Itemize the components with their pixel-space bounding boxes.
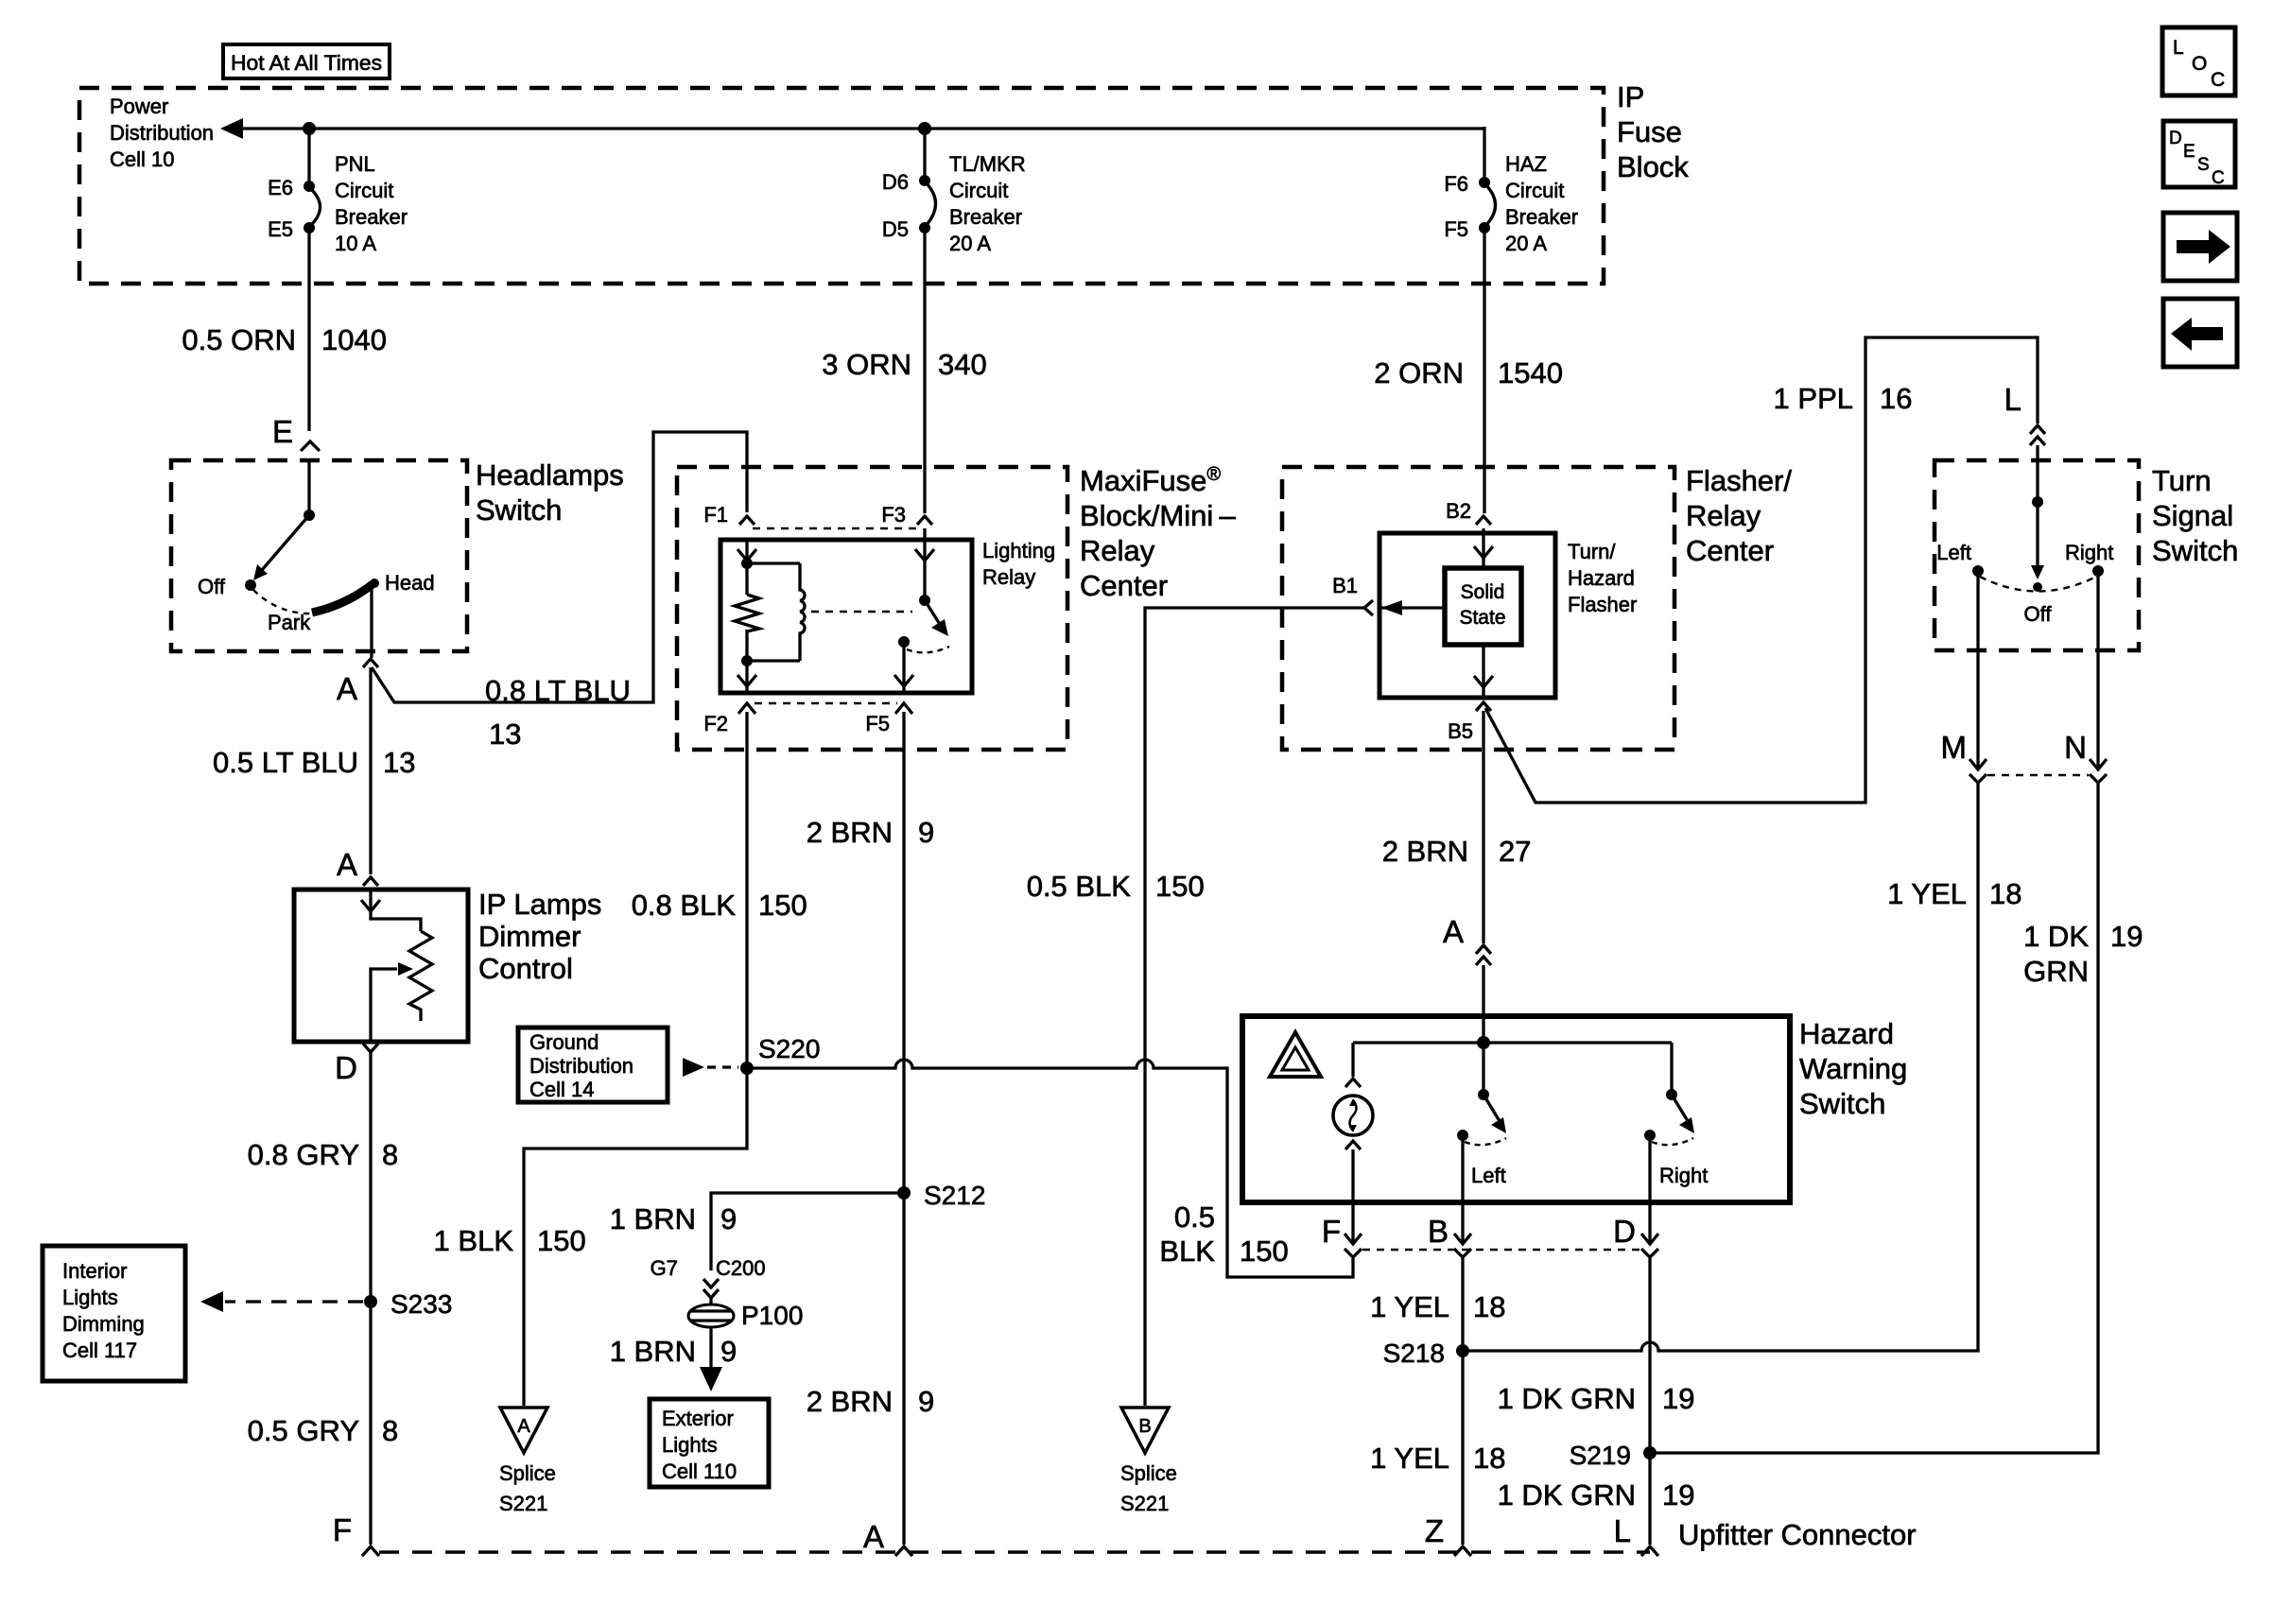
node S212 (897, 1181, 985, 1210)
svg-text:A: A (863, 1519, 884, 1554)
connector N (2064, 730, 2107, 783)
svg-text:Cell 10: Cell 10 (110, 147, 174, 171)
svg-text:8: 8 (382, 1414, 398, 1447)
svg-text:Right: Right (1659, 1164, 1708, 1187)
svg-text:Exterior: Exterior (662, 1407, 734, 1430)
svg-text:Switch: Switch (2152, 534, 2238, 567)
connector Z (1425, 1513, 1471, 1556)
wire 0.5 LT BLU down to dimmer (369, 667, 372, 874)
wire Right to N (2096, 571, 2099, 768)
pin face dashed line F1-F3 (753, 527, 919, 529)
node Right (2065, 541, 2113, 577)
hazard feed node (1477, 1036, 1490, 1049)
splice S221 A triangle (499, 1408, 556, 1515)
wire 1 DK GRN from N to S219 (1654, 783, 2098, 1453)
svg-text:18: 18 (1473, 1442, 1505, 1475)
svg-text:1 BRN: 1 BRN (610, 1335, 696, 1368)
LOC icon box (2162, 27, 2235, 95)
dashed travel arc Left-Off-Right (1980, 577, 2096, 592)
svg-text:Relay: Relay (1080, 534, 1155, 567)
wire label 1 BRN 9 (610, 1202, 737, 1235)
svg-text:150: 150 (1155, 870, 1205, 903)
wire label 2 ORN 1540 (1374, 356, 1563, 389)
Turn Signal Switch dashed box (1935, 460, 2139, 650)
wire from Head down to A (370, 586, 373, 658)
svg-text:150: 150 (537, 1224, 586, 1257)
wire from S212 to C200 (711, 1193, 904, 1270)
svg-text:Splice: Splice (1120, 1461, 1177, 1485)
wire from S220 down to splice S221 A (524, 1068, 747, 1406)
circuit breaker TL/MKR 20A (D6-D5) (882, 129, 1026, 513)
wire 1 BRN 9 to exterior lights (610, 1327, 737, 1391)
wire label 1 YEL 18 upper right (1887, 877, 2021, 910)
svg-text:E5: E5 (268, 217, 293, 241)
svg-text:Circuit: Circuit (949, 179, 1008, 202)
svg-text:Control: Control (478, 952, 573, 985)
svg-text:Cell 117: Cell 117 (62, 1339, 137, 1362)
wire label 0.5 BLK 150 at hazard F (1159, 1201, 1288, 1268)
wire label 1 PPL 16 (1774, 382, 1913, 415)
svg-text:Signal: Signal (2152, 499, 2233, 532)
node S220 (740, 1034, 820, 1075)
pin F5 (865, 703, 912, 735)
svg-text:A: A (1443, 914, 1464, 949)
svg-text:2 ORN: 2 ORN (1374, 356, 1464, 389)
wire 1 PPL from B5 to L (1485, 337, 2038, 803)
Exterior Lights Cell 110 box (650, 1399, 769, 1487)
pin B1 (1332, 574, 1373, 615)
node: junction at TL/MKR breaker (918, 122, 931, 135)
splice S221 B triangle (1120, 1408, 1177, 1515)
svg-text:340: 340 (938, 348, 987, 381)
connector G7 C200 (651, 1256, 766, 1298)
wire A into hazard switch (1482, 965, 1484, 1043)
svg-text:B5: B5 (1448, 719, 1473, 743)
connector A at hazard switch (1443, 914, 1491, 965)
wire label 0.5 LT BLU 13 (213, 746, 415, 779)
svg-text:State: State (1459, 607, 1505, 629)
dimmer rheostat (361, 890, 432, 1042)
svg-text:150: 150 (758, 889, 807, 922)
svg-text:F5: F5 (865, 712, 890, 735)
wire 0.8 LT BLU from A up to F1 (372, 432, 747, 702)
svg-text:F1: F1 (703, 503, 728, 527)
svg-text:0.8 BLK: 0.8 BLK (632, 889, 737, 922)
Hazard Warning Switch box (1242, 1016, 1790, 1202)
wire 2 BRN from F5 down to A (902, 712, 905, 1545)
svg-text:Interior: Interior (62, 1259, 127, 1283)
svg-text:P100: P100 (741, 1301, 803, 1330)
svg-text:27: 27 (1499, 835, 1531, 868)
svg-text:S218: S218 (1383, 1339, 1445, 1368)
node Off (198, 575, 256, 598)
wire solid state to B1 (1379, 600, 1445, 615)
Turn/Hazard Flasher label (1568, 540, 1637, 616)
svg-text:S221: S221 (499, 1492, 547, 1515)
wire solid state to B5 (1474, 645, 1493, 698)
svg-text:0.5 BLK: 0.5 BLK (1027, 870, 1132, 903)
svg-text:A: A (337, 847, 357, 882)
svg-text:Lights: Lights (662, 1433, 718, 1457)
svg-text:L: L (1614, 1513, 1631, 1548)
svg-text:E6: E6 (268, 176, 293, 199)
svg-text:BLK: BLK (1159, 1235, 1215, 1268)
svg-text:D: D (1613, 1214, 1636, 1249)
svg-text:19: 19 (1662, 1478, 1694, 1512)
connector D (335, 1044, 378, 1085)
svg-text:19: 19 (1662, 1382, 1694, 1415)
wire label 2 BRN 9 lower (807, 1385, 935, 1418)
svg-text:Fuse: Fuse (1617, 115, 1682, 148)
svg-text:Hazard: Hazard (1568, 566, 1635, 590)
svg-text:D: D (2169, 129, 2182, 148)
svg-text:Ground: Ground (529, 1030, 599, 1054)
svg-text:18: 18 (1989, 877, 2021, 910)
pin B of hazard switch (1428, 1214, 1471, 1257)
pin F2 (703, 703, 755, 735)
ground wire S220 to hazard switch F (747, 1060, 1353, 1277)
Lighting Relay label (982, 539, 1055, 589)
svg-text:0.5 GRY: 0.5 GRY (248, 1414, 359, 1447)
svg-text:Headlamps: Headlamps (476, 458, 624, 492)
svg-text:Lighting: Lighting (982, 539, 1055, 562)
connector A at bottom line (863, 1519, 912, 1556)
svg-text:E: E (272, 414, 293, 449)
wire: top feed bus to Power Distribution (220, 118, 1484, 139)
connector E (272, 414, 320, 451)
svg-text:S212: S212 (924, 1181, 985, 1210)
svg-text:1 YEL: 1 YEL (1370, 1290, 1449, 1323)
svg-text:Dimmer: Dimmer (478, 920, 581, 953)
svg-text:1 DK: 1 DK (2023, 920, 2089, 953)
svg-text:B: B (1428, 1214, 1449, 1249)
pin B5 (1448, 702, 1491, 743)
thick blade arc Park to Head (312, 584, 373, 613)
svg-text:Park: Park (268, 611, 311, 634)
Flasher/Relay Center label (1686, 464, 1792, 567)
svg-text:D: D (335, 1050, 357, 1085)
wire 0.8 BLK from F2 to S220 (745, 712, 748, 1068)
svg-text:D5: D5 (882, 217, 909, 241)
svg-text:Z: Z (1425, 1513, 1444, 1548)
relay coil branch (735, 540, 805, 693)
svg-text:Cell 110: Cell 110 (662, 1460, 737, 1483)
wire label 0.5 BLK 150 (1027, 870, 1205, 903)
wire 1 YEL from B to Z (1461, 1257, 1464, 1545)
svg-text:Off: Off (2024, 602, 2053, 626)
Hot At All Times label box (223, 44, 390, 78)
wire label 1 DK GRN right (2023, 920, 2143, 988)
IP Fuse Block label (1617, 80, 1689, 183)
svg-text:Switch: Switch (476, 493, 562, 527)
svg-text:13: 13 (383, 746, 415, 779)
svg-text:Turn: Turn (2152, 464, 2212, 497)
svg-text:F6: F6 (1444, 172, 1468, 196)
svg-text:L: L (2173, 37, 2184, 59)
svg-text:S221: S221 (1120, 1492, 1169, 1515)
Lighting Relay box (720, 540, 972, 693)
pin F1 (703, 503, 755, 527)
Hazard Warning Switch label (1799, 1017, 1907, 1120)
hazard warning triangle icon (1270, 1032, 1321, 1077)
svg-text:E: E (2183, 142, 2195, 162)
svg-text:Center: Center (1080, 569, 1168, 602)
svg-text:C200: C200 (716, 1256, 766, 1280)
node S233 (364, 1289, 452, 1319)
headlamp switch blade with arrow to Off (253, 510, 315, 580)
svg-text:F2: F2 (703, 712, 728, 735)
svg-text:S219: S219 (1570, 1441, 1631, 1470)
svg-text:18: 18 (1473, 1290, 1505, 1323)
svg-text:1 PPL: 1 PPL (1774, 382, 1853, 415)
pin D of hazard switch (1613, 1214, 1658, 1257)
svg-text:Upfitter Connector: Upfitter Connector (1678, 1518, 1917, 1551)
node S219 (1570, 1441, 1657, 1470)
svg-text:A: A (517, 1416, 530, 1437)
wire B2 into flasher (1474, 528, 1493, 568)
svg-text:Hazard: Hazard (1799, 1017, 1894, 1050)
wire 1 DK GRN from D to L (1648, 1257, 1651, 1545)
svg-text:Splice: Splice (499, 1461, 556, 1485)
pin F3 (881, 503, 932, 527)
connector L at upfitter (1614, 1513, 1658, 1556)
wire into headlamp switch (307, 462, 310, 515)
svg-text:Center: Center (1686, 534, 1774, 567)
hazard right contact switch (1644, 1043, 1708, 1242)
svg-text:8: 8 (382, 1138, 398, 1171)
wire label 2 BRN 27 (1382, 835, 1532, 868)
svg-text:D6: D6 (882, 170, 909, 194)
circuit breaker HAZ 20A (F6-F5) (1444, 127, 1578, 513)
connector L at turn signal switch (2004, 382, 2045, 445)
node Head (370, 571, 435, 595)
svg-text:M: M (1941, 730, 1968, 765)
svg-text:150: 150 (1240, 1235, 1289, 1268)
node S218 (1383, 1339, 1469, 1368)
svg-text:1 YEL: 1 YEL (1370, 1442, 1449, 1475)
svg-text:S220: S220 (758, 1034, 820, 1063)
pin F of hazard switch (1322, 1214, 1362, 1257)
IP Fuse Block dashed box (79, 88, 1604, 284)
svg-text:Relay: Relay (1686, 499, 1761, 532)
wire label 3 ORN 340 (822, 348, 986, 381)
svg-text:Warning: Warning (1799, 1052, 1907, 1085)
svg-text:L: L (2004, 382, 2021, 417)
svg-text:0.8 LT BLU: 0.8 LT BLU (485, 674, 631, 707)
svg-text:2 BRN: 2 BRN (807, 816, 893, 849)
svg-text:Right: Right (2065, 541, 2113, 564)
svg-text:9: 9 (918, 1385, 934, 1418)
connector A at dimmer control (337, 847, 378, 886)
svg-text:MaxiFuse®: MaxiFuse® (1080, 464, 1221, 497)
svg-text:Switch: Switch (1799, 1087, 1885, 1120)
svg-text:9: 9 (720, 1335, 737, 1368)
pin face dashed line F2-F5 (755, 702, 897, 704)
relay switch branch (894, 528, 949, 693)
svg-text:GRN: GRN (2023, 955, 2089, 988)
Ground Distribution Cell 14 box (518, 1028, 668, 1102)
dashed travel arc Off to Park (253, 590, 317, 613)
svg-text:0.5 ORN: 0.5 ORN (182, 323, 296, 356)
svg-text:TL/MKR: TL/MKR (949, 152, 1026, 176)
svg-text:0.5 LT BLU: 0.5 LT BLU (213, 746, 358, 779)
svg-text:16: 16 (1880, 382, 1912, 415)
svg-text:Circuit: Circuit (1505, 179, 1564, 202)
wire label 1 YEL 18 below S218 (1370, 1442, 1505, 1475)
svg-text:0.5: 0.5 (1174, 1201, 1215, 1234)
svg-text:2 BRN: 2 BRN (807, 1385, 893, 1418)
svg-text:C: C (2211, 69, 2225, 91)
svg-text:O: O (2192, 53, 2207, 75)
wire 1 YEL from M to S218 (1466, 783, 1978, 1351)
relay actuator dashed line (811, 611, 912, 613)
node: junction at PNL breaker (303, 122, 316, 135)
svg-text:13: 13 (489, 717, 521, 751)
wire 0.8 GRY / 0.5 GRY down to F (369, 1052, 372, 1545)
svg-text:Flasher: Flasher (1568, 593, 1637, 616)
wire label 1 DK GRN 19 above S219 (1498, 1382, 1695, 1415)
svg-text:1 BLK: 1 BLK (434, 1224, 514, 1257)
connector face dashed line M-N (1987, 774, 2089, 776)
svg-text:Left: Left (1471, 1164, 1506, 1187)
node Left (1936, 541, 1984, 577)
IP Lamps Dimmer Control label (478, 888, 601, 985)
wire 2 BRN 27 from B5 down (1482, 711, 1484, 943)
svg-text:N: N (2064, 730, 2087, 765)
svg-text:G7: G7 (651, 1256, 678, 1280)
svg-text:B2: B2 (1446, 499, 1471, 523)
svg-text:Distribution: Distribution (529, 1054, 633, 1078)
wire label 0.5 ORN 1040 (182, 323, 387, 356)
svg-text:1 DK GRN: 1 DK GRN (1498, 1382, 1636, 1415)
right arrow icon box (2163, 213, 2237, 281)
svg-text:3 ORN: 3 ORN (822, 348, 911, 381)
svg-text:Left: Left (1936, 541, 1971, 564)
svg-text:Breaker: Breaker (949, 205, 1022, 229)
Power Distribution Cell 10 label (110, 95, 214, 171)
wire label 2 BRN 9 (807, 816, 935, 849)
svg-text:Head: Head (385, 571, 435, 595)
svg-text:Power: Power (110, 95, 168, 118)
svg-text:Block: Block (1617, 150, 1689, 183)
svg-text:IP Lamps: IP Lamps (478, 888, 601, 921)
svg-text:C: C (2212, 168, 2225, 188)
wire label 1 DK GRN 19 below S219 (1498, 1478, 1695, 1512)
circuit breaker PNL 10A (E6-E5) (268, 129, 408, 431)
svg-text:B: B (1138, 1416, 1151, 1437)
svg-text:2 BRN: 2 BRN (1382, 835, 1468, 868)
svg-text:Block/Mini –: Block/Mini – (1080, 499, 1236, 532)
wire Left to M (1976, 571, 1979, 768)
Headlamps Switch dashed box (171, 460, 467, 651)
MaxiFuse Block/Mini-Relay Center label (1080, 464, 1236, 602)
svg-text:1 YEL: 1 YEL (1887, 877, 1967, 910)
svg-text:Hot At All Times: Hot At All Times (231, 51, 382, 75)
dashed wire to Interior Lights Dimming (200, 1291, 363, 1312)
bottom dashed connector line (379, 1550, 1650, 1554)
svg-text:20 A: 20 A (949, 232, 991, 255)
connector M (1941, 730, 1987, 783)
svg-text:F3: F3 (881, 503, 906, 527)
svg-text:Solid: Solid (1461, 581, 1505, 603)
svg-text:F: F (1322, 1214, 1341, 1249)
svg-text:Cell 14: Cell 14 (529, 1078, 594, 1101)
svg-text:1540: 1540 (1498, 356, 1563, 389)
Flasher/Relay Center dashed box (1282, 467, 1674, 750)
svg-text:0.8 GRY: 0.8 GRY (248, 1138, 359, 1171)
wire label 0.8 LT BLU 13 (485, 674, 631, 751)
connector F at bottom (333, 1512, 379, 1556)
hazard internal bus (1353, 1041, 1672, 1044)
svg-text:PNL: PNL (335, 152, 375, 176)
connector A below headlamps switch (337, 659, 378, 706)
svg-text:S233: S233 (390, 1289, 452, 1319)
svg-text:9: 9 (720, 1202, 737, 1235)
svg-text:F5: F5 (1444, 217, 1468, 241)
svg-text:Dimming: Dimming (62, 1312, 145, 1336)
MaxiFuse Block dashed box (677, 467, 1067, 750)
svg-text:Breaker: Breaker (335, 205, 408, 229)
wire label 1 YEL 18 at B (1370, 1290, 1505, 1323)
svg-text:Off: Off (198, 575, 226, 598)
Turn Signal Switch label (2152, 464, 2238, 567)
IP Lamps Dimmer Control box (294, 890, 468, 1042)
svg-text:1 BRN: 1 BRN (610, 1202, 696, 1235)
svg-text:B1: B1 (1332, 574, 1358, 597)
svg-text:Flasher/: Flasher/ (1686, 464, 1792, 497)
connector face dashed line F-B-D (1362, 1249, 1640, 1251)
svg-text:19: 19 (2110, 920, 2143, 953)
svg-text:S: S (2197, 155, 2210, 175)
hazard left contact switch (1457, 1043, 1506, 1242)
grommet P100 (688, 1298, 803, 1330)
svg-text:Distribution: Distribution (110, 121, 214, 145)
pin B2 (1446, 499, 1491, 525)
hazard lamp branch (1333, 1043, 1373, 1242)
svg-text:IP: IP (1617, 80, 1644, 113)
svg-text:1 DK GRN: 1 DK GRN (1498, 1478, 1636, 1512)
svg-text:HAZ: HAZ (1505, 152, 1547, 176)
left arrow icon box (2163, 299, 2237, 367)
svg-text:Turn/: Turn/ (1568, 540, 1616, 563)
wire 0.5 BLK from B1 to splice S221 B (1145, 608, 1364, 1406)
wire label 1 BLK 150 (434, 1224, 586, 1257)
svg-text:10 A: 10 A (335, 232, 376, 255)
svg-text:Circuit: Circuit (335, 179, 393, 202)
DESC icon box (2163, 121, 2235, 188)
ground distribution arrow (683, 1058, 738, 1077)
svg-text:1040: 1040 (321, 323, 387, 356)
Turn/Hazard Flasher box (1379, 533, 1555, 698)
svg-text:20 A: 20 A (1505, 232, 1547, 255)
svg-text:Relay: Relay (982, 565, 1035, 589)
Interior Lights Dimming Cell 117 box (43, 1246, 185, 1381)
svg-text:Breaker: Breaker (1505, 205, 1578, 229)
svg-text:9: 9 (918, 816, 934, 849)
wire label 0.8 GRY 8 (248, 1138, 399, 1171)
Headlamps Switch label (476, 458, 624, 527)
svg-text:Lights: Lights (62, 1286, 118, 1309)
Solid State box (1445, 568, 1521, 645)
svg-text:F: F (333, 1512, 352, 1547)
turn signal stalk wire (2031, 445, 2044, 592)
svg-text:A: A (337, 671, 357, 706)
wire label 0.5 GRY 8 (248, 1414, 399, 1447)
wire label 0.8 BLK 150 (632, 889, 807, 922)
